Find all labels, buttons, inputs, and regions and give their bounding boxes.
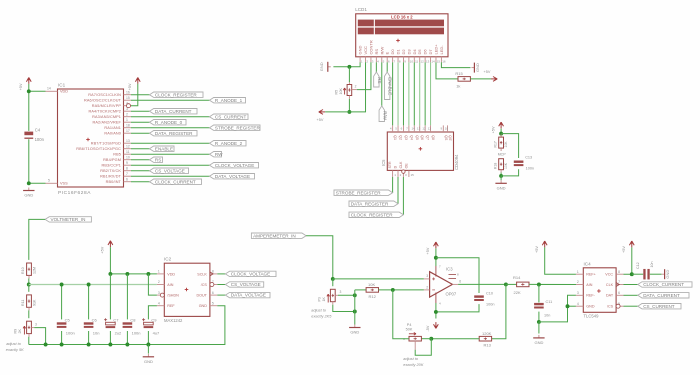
- svg-text:IC2: IC2: [164, 257, 172, 262]
- svg-text:13: 13: [417, 127, 421, 131]
- svg-text:RA5/MCLR/VPP: RA5/MCLR/VPP: [92, 104, 122, 108]
- svg-text:CLOCK_VOLTAGE: CLOCK_VOLTAGE: [215, 163, 254, 168]
- svg-text:STROBE_REGISTER: STROBE_REGISTER: [336, 190, 382, 195]
- svg-text:R11: R11: [21, 300, 25, 306]
- svg-text:QS': QS': [448, 135, 452, 141]
- svg-text:D7: D7: [428, 49, 433, 55]
- svg-text:3: 3: [340, 290, 342, 294]
- svg-text:Q1: Q1: [393, 135, 397, 140]
- svg-text:CLK: CLK: [606, 283, 614, 287]
- svg-text:CS_CURRENT: CS_CURRENT: [215, 114, 247, 119]
- svg-text:3: 3: [426, 274, 428, 278]
- svg-text:R13: R13: [484, 343, 492, 348]
- svg-text:C12: C12: [636, 262, 640, 269]
- svg-text:OE: OE: [405, 163, 409, 169]
- svg-text:D2: D2: [401, 49, 406, 55]
- svg-text:C4: C4: [35, 128, 41, 133]
- svg-text:4: 4: [158, 301, 160, 305]
- svg-text:14: 14: [431, 59, 435, 63]
- svg-text:7: 7: [126, 172, 128, 176]
- svg-text:Q5: Q5: [415, 135, 419, 140]
- svg-text:exactly 20K: exactly 20K: [403, 362, 424, 367]
- svg-text:10K: 10K: [504, 162, 508, 169]
- svg-text:VDD: VDD: [60, 90, 68, 94]
- svg-text:DATA_VOLTAGE: DATA_VOLTAGE: [215, 174, 250, 179]
- svg-text:+5V: +5V: [484, 70, 491, 74]
- svg-text:ENABLE: ENABLE: [388, 77, 393, 95]
- svg-text:E: E: [385, 52, 390, 55]
- svg-text:R_ANODE_1: R_ANODE_1: [215, 98, 243, 103]
- svg-text:LCD 16 x 2: LCD 16 x 2: [391, 14, 413, 19]
- svg-text:2: 2: [158, 280, 160, 284]
- svg-text:DATA_CURRENT: DATA_CURRENT: [643, 293, 680, 298]
- svg-text:120K: 120K: [482, 331, 492, 336]
- svg-text:100n: 100n: [486, 302, 494, 306]
- svg-text:RB7/T1OSI/PGD: RB7/T1OSI/PGD: [91, 142, 121, 146]
- svg-text:DAT: DAT: [606, 294, 614, 298]
- svg-text:AIN: AIN: [167, 283, 173, 287]
- svg-text:GND: GND: [665, 270, 670, 279]
- svg-text:IC4: IC4: [584, 261, 592, 266]
- svg-text:12: 12: [422, 127, 426, 131]
- svg-text:9: 9: [126, 161, 128, 165]
- svg-text:GND: GND: [475, 63, 480, 72]
- svg-text:6: 6: [212, 291, 214, 295]
- svg-text:VSS: VSS: [60, 182, 68, 186]
- svg-text:RA0/AN0: RA0/AN0: [104, 132, 121, 136]
- svg-text:CLOCK_REGISTER: CLOCK_REGISTER: [351, 212, 394, 217]
- svg-text:D3: D3: [406, 49, 411, 55]
- svg-text:RB0/INT: RB0/INT: [106, 180, 122, 184]
- svg-text:RW: RW: [215, 152, 223, 157]
- svg-text:RB1/RX/DT: RB1/RX/DT: [100, 175, 121, 179]
- svg-text:3: 3: [35, 322, 37, 326]
- svg-text:VOLTMETER_IN: VOLTMETER_IN: [51, 217, 86, 222]
- svg-text:+5V: +5V: [19, 83, 23, 90]
- svg-text:Q8: Q8: [431, 135, 435, 140]
- svg-text:GND: GND: [144, 359, 153, 364]
- svg-text:C13: C13: [525, 155, 532, 159]
- svg-text:10: 10: [410, 59, 414, 63]
- svg-text:STR: STR: [388, 161, 392, 168]
- svg-text:18: 18: [126, 124, 130, 128]
- svg-text:Q6: Q6: [420, 135, 424, 140]
- svg-text:+5V: +5V: [491, 126, 495, 133]
- svg-text:D1: D1: [396, 49, 401, 55]
- svg-text:REF+: REF+: [586, 273, 596, 277]
- svg-text:C11: C11: [546, 300, 553, 304]
- svg-text:RB6/T1OSO/T1CKI/PGC: RB6/T1OSO/T1CKI/PGC: [76, 147, 121, 151]
- svg-text:R18: R18: [493, 163, 497, 169]
- svg-text:exactly 5K: exactly 5K: [6, 347, 24, 352]
- svg-text:3: 3: [577, 291, 579, 295]
- svg-text:/CS: /CS: [607, 305, 614, 309]
- svg-text:C10: C10: [486, 292, 493, 296]
- svg-text:6: 6: [126, 178, 128, 182]
- svg-text:4: 4: [577, 302, 579, 306]
- svg-text:10: 10: [445, 127, 449, 131]
- svg-text:MCP: MCP: [498, 152, 507, 156]
- svg-text:10: 10: [126, 156, 130, 160]
- svg-text:D5: D5: [417, 49, 422, 55]
- svg-text:STROBE_REGISTER: STROBE_REGISTER: [215, 125, 261, 130]
- svg-text:RB3/CCP1: RB3/CCP1: [101, 164, 121, 168]
- svg-text:GND: GND: [350, 330, 359, 335]
- svg-text:D0: D0: [390, 49, 395, 55]
- svg-text:CONTR: CONTR: [368, 40, 373, 54]
- svg-text:Q4: Q4: [409, 135, 413, 140]
- svg-text:2: 2: [126, 113, 128, 117]
- svg-text:CLOCK_REGISTER: CLOCK_REGISTER: [155, 92, 198, 97]
- svg-text:RA4/T0CKI/CMP2: RA4/T0CKI/CMP2: [89, 110, 122, 114]
- svg-text:RB4/PGM: RB4/PGM: [103, 158, 121, 162]
- svg-text:6: 6: [459, 280, 461, 284]
- svg-text:R17: R17: [493, 141, 497, 147]
- svg-text:D4: D4: [412, 49, 417, 55]
- svg-text:2K: 2K: [18, 329, 22, 334]
- svg-text:SCLK: SCLK: [197, 272, 207, 276]
- svg-text:11: 11: [415, 59, 418, 63]
- svg-text:RA6/OSC2/CLKOUT: RA6/OSC2/CLKOUT: [84, 99, 122, 103]
- svg-text:CLOCK_CURRENT: CLOCK_CURRENT: [155, 179, 196, 184]
- svg-text:1: 1: [577, 270, 579, 274]
- svg-text:2: 2: [426, 285, 428, 289]
- svg-text:R/W: R/W: [382, 111, 387, 121]
- svg-text:4u7: 4u7: [153, 331, 160, 336]
- svg-text:C8: C8: [130, 317, 136, 322]
- svg-text:GND: GND: [534, 340, 543, 345]
- svg-text:R/W: R/W: [379, 47, 384, 55]
- svg-text:13: 13: [126, 139, 130, 143]
- svg-text:GND: GND: [199, 304, 208, 308]
- svg-text:14: 14: [412, 127, 416, 131]
- svg-text:exactly 2K5: exactly 2K5: [311, 314, 332, 319]
- svg-text:RA7/OSC1/CLKIN: RA7/OSC1/CLKIN: [88, 93, 121, 97]
- svg-text:IC3: IC3: [446, 266, 453, 271]
- svg-text:R14: R14: [513, 275, 521, 280]
- svg-text:+5V: +5V: [317, 118, 324, 122]
- svg-text:REF: REF: [167, 304, 175, 308]
- svg-text:5: 5: [212, 301, 214, 305]
- svg-text:1: 1: [158, 270, 160, 274]
- svg-text:RS: RS: [155, 157, 161, 162]
- svg-text:10n: 10n: [650, 262, 654, 268]
- svg-text:RS: RS: [374, 49, 379, 55]
- svg-text:RS: RS: [377, 77, 382, 83]
- svg-text:15: 15: [411, 173, 415, 177]
- svg-text:1k: 1k: [456, 84, 460, 89]
- svg-text:QS: QS: [444, 135, 448, 141]
- svg-text:10K: 10K: [368, 282, 375, 287]
- svg-text:RA3/AN3/CMP1: RA3/AN3/CMP1: [92, 115, 121, 119]
- svg-text:2: 2: [355, 84, 357, 88]
- svg-text:LED-: LED-: [439, 45, 444, 55]
- svg-text:DOUT: DOUT: [196, 294, 207, 298]
- svg-text:+5V: +5V: [101, 246, 105, 253]
- svg-text:+5V: +5V: [426, 247, 430, 254]
- svg-text:10n: 10n: [93, 331, 100, 336]
- svg-text:16: 16: [442, 59, 446, 63]
- svg-text:91K: 91K: [33, 299, 37, 306]
- svg-text:VDD: VDD: [167, 272, 175, 276]
- svg-text:+5V: +5V: [535, 246, 539, 253]
- svg-text:DATA_REGISTER: DATA_REGISTER: [155, 131, 193, 136]
- svg-text:14: 14: [47, 87, 51, 91]
- svg-text:C9: C9: [151, 317, 157, 322]
- svg-text:15: 15: [437, 59, 441, 63]
- svg-text:GND: GND: [497, 186, 506, 191]
- svg-text:LCD1: LCD1: [355, 7, 367, 12]
- svg-text:DATA_CURRENT: DATA_CURRENT: [155, 109, 192, 114]
- svg-text:2u2: 2u2: [115, 331, 122, 336]
- svg-text:/CS: /CS: [201, 283, 208, 287]
- svg-text:100n: 100n: [526, 167, 534, 171]
- svg-text:P4: P4: [407, 323, 412, 327]
- svg-text:adjust to: adjust to: [311, 308, 327, 313]
- svg-text:AMPEREMETER_IN: AMPEREMETER_IN: [253, 233, 296, 238]
- svg-text:ENABLE: ENABLE: [155, 146, 173, 151]
- svg-text:50K: 50K: [406, 328, 413, 332]
- svg-text:-5V: -5V: [426, 325, 430, 331]
- svg-text:IC5: IC5: [381, 159, 386, 166]
- svg-text:RA2/AN2/VREF: RA2/AN2/VREF: [93, 121, 122, 125]
- svg-text:+5V: +5V: [128, 83, 132, 90]
- svg-text:8: 8: [618, 270, 620, 274]
- svg-text:R15: R15: [455, 71, 463, 76]
- svg-text:RB2/TX/CK: RB2/TX/CK: [100, 169, 121, 173]
- svg-text:12: 12: [126, 145, 130, 149]
- svg-text:10K: 10K: [504, 141, 508, 148]
- svg-text:/SHDN: /SHDN: [167, 294, 179, 298]
- svg-text:Q3: Q3: [404, 135, 408, 140]
- svg-text:CLOCK_CURRENT: CLOCK_CURRENT: [643, 282, 684, 287]
- svg-text:C7: C7: [113, 317, 119, 322]
- svg-text:DATA_VOLTAGE: DATA_VOLTAGE: [231, 293, 266, 298]
- svg-text:LED+: LED+: [433, 44, 438, 55]
- svg-text:GND: GND: [319, 62, 324, 71]
- svg-text:P3: P3: [317, 297, 321, 301]
- svg-text:Q2: Q2: [399, 135, 403, 140]
- svg-text:GND: GND: [586, 305, 595, 309]
- svg-text:R_ANODE_2: R_ANODE_2: [215, 141, 243, 146]
- svg-text:100n: 100n: [66, 331, 75, 336]
- svg-text:GND: GND: [358, 46, 363, 55]
- svg-text:OP07: OP07: [446, 292, 457, 297]
- svg-text:10K: 10K: [339, 88, 343, 95]
- svg-text:VCC: VCC: [363, 46, 368, 55]
- svg-text:15: 15: [126, 96, 130, 100]
- svg-text:22K: 22K: [514, 290, 521, 295]
- svg-text:1: 1: [126, 118, 128, 122]
- svg-text:C5: C5: [65, 317, 71, 322]
- svg-text:adjust to: adjust to: [403, 356, 419, 361]
- svg-text:12: 12: [421, 59, 425, 63]
- svg-text:RA1/AN1: RA1/AN1: [104, 126, 121, 130]
- svg-text:VCC: VCC: [605, 273, 613, 277]
- svg-text:+5V: +5V: [622, 246, 626, 253]
- svg-text:AIN: AIN: [586, 283, 592, 287]
- svg-text:2: 2: [577, 280, 579, 284]
- svg-text:CS_VOLTAGE: CS_VOLTAGE: [231, 282, 261, 287]
- svg-text:10n: 10n: [544, 314, 550, 318]
- svg-text:C6: C6: [92, 317, 98, 322]
- svg-text:R_ANODE_0: R_ANODE_0: [155, 120, 183, 125]
- svg-text:IC1: IC1: [58, 82, 66, 87]
- svg-text:CD4094: CD4094: [454, 154, 459, 170]
- svg-text:100n: 100n: [35, 137, 45, 142]
- svg-text:CLOCK_VOLTAGE: CLOCK_VOLTAGE: [231, 272, 270, 277]
- svg-text:TLC549: TLC549: [584, 314, 600, 319]
- svg-text:3: 3: [158, 291, 160, 295]
- svg-text:6: 6: [618, 291, 620, 295]
- svg-text:17: 17: [126, 129, 130, 133]
- svg-text:Q7: Q7: [426, 135, 430, 140]
- svg-text:REF-: REF-: [586, 294, 595, 298]
- svg-text:11: 11: [428, 127, 431, 131]
- svg-text:PIC16F628A: PIC16F628A: [58, 190, 91, 196]
- svg-text:CLK: CLK: [399, 161, 403, 168]
- svg-text:11: 11: [126, 150, 130, 154]
- svg-text:16: 16: [126, 91, 130, 95]
- svg-text:5: 5: [48, 179, 50, 183]
- svg-text:adjust to: adjust to: [6, 341, 22, 346]
- svg-text:CS_VOLTAGE: CS_VOLTAGE: [155, 168, 185, 173]
- svg-text:100n: 100n: [132, 331, 141, 336]
- svg-text:CS_CURRENT: CS_CURRENT: [643, 304, 675, 309]
- svg-text:13: 13: [426, 59, 430, 63]
- svg-text:R10: R10: [21, 267, 25, 274]
- svg-text:GND: GND: [24, 193, 33, 198]
- svg-text:12M: 12M: [33, 267, 37, 274]
- svg-text:MAX1242: MAX1242: [164, 318, 183, 323]
- svg-text:8: 8: [126, 167, 128, 171]
- svg-text:1K: 1K: [322, 297, 326, 302]
- svg-text:R12: R12: [369, 294, 377, 299]
- svg-text:RB5: RB5: [113, 153, 121, 157]
- svg-text:R9: R9: [14, 329, 18, 334]
- svg-text:D6: D6: [423, 49, 428, 55]
- svg-text:DATA_REGISTER: DATA_REGISTER: [351, 201, 389, 206]
